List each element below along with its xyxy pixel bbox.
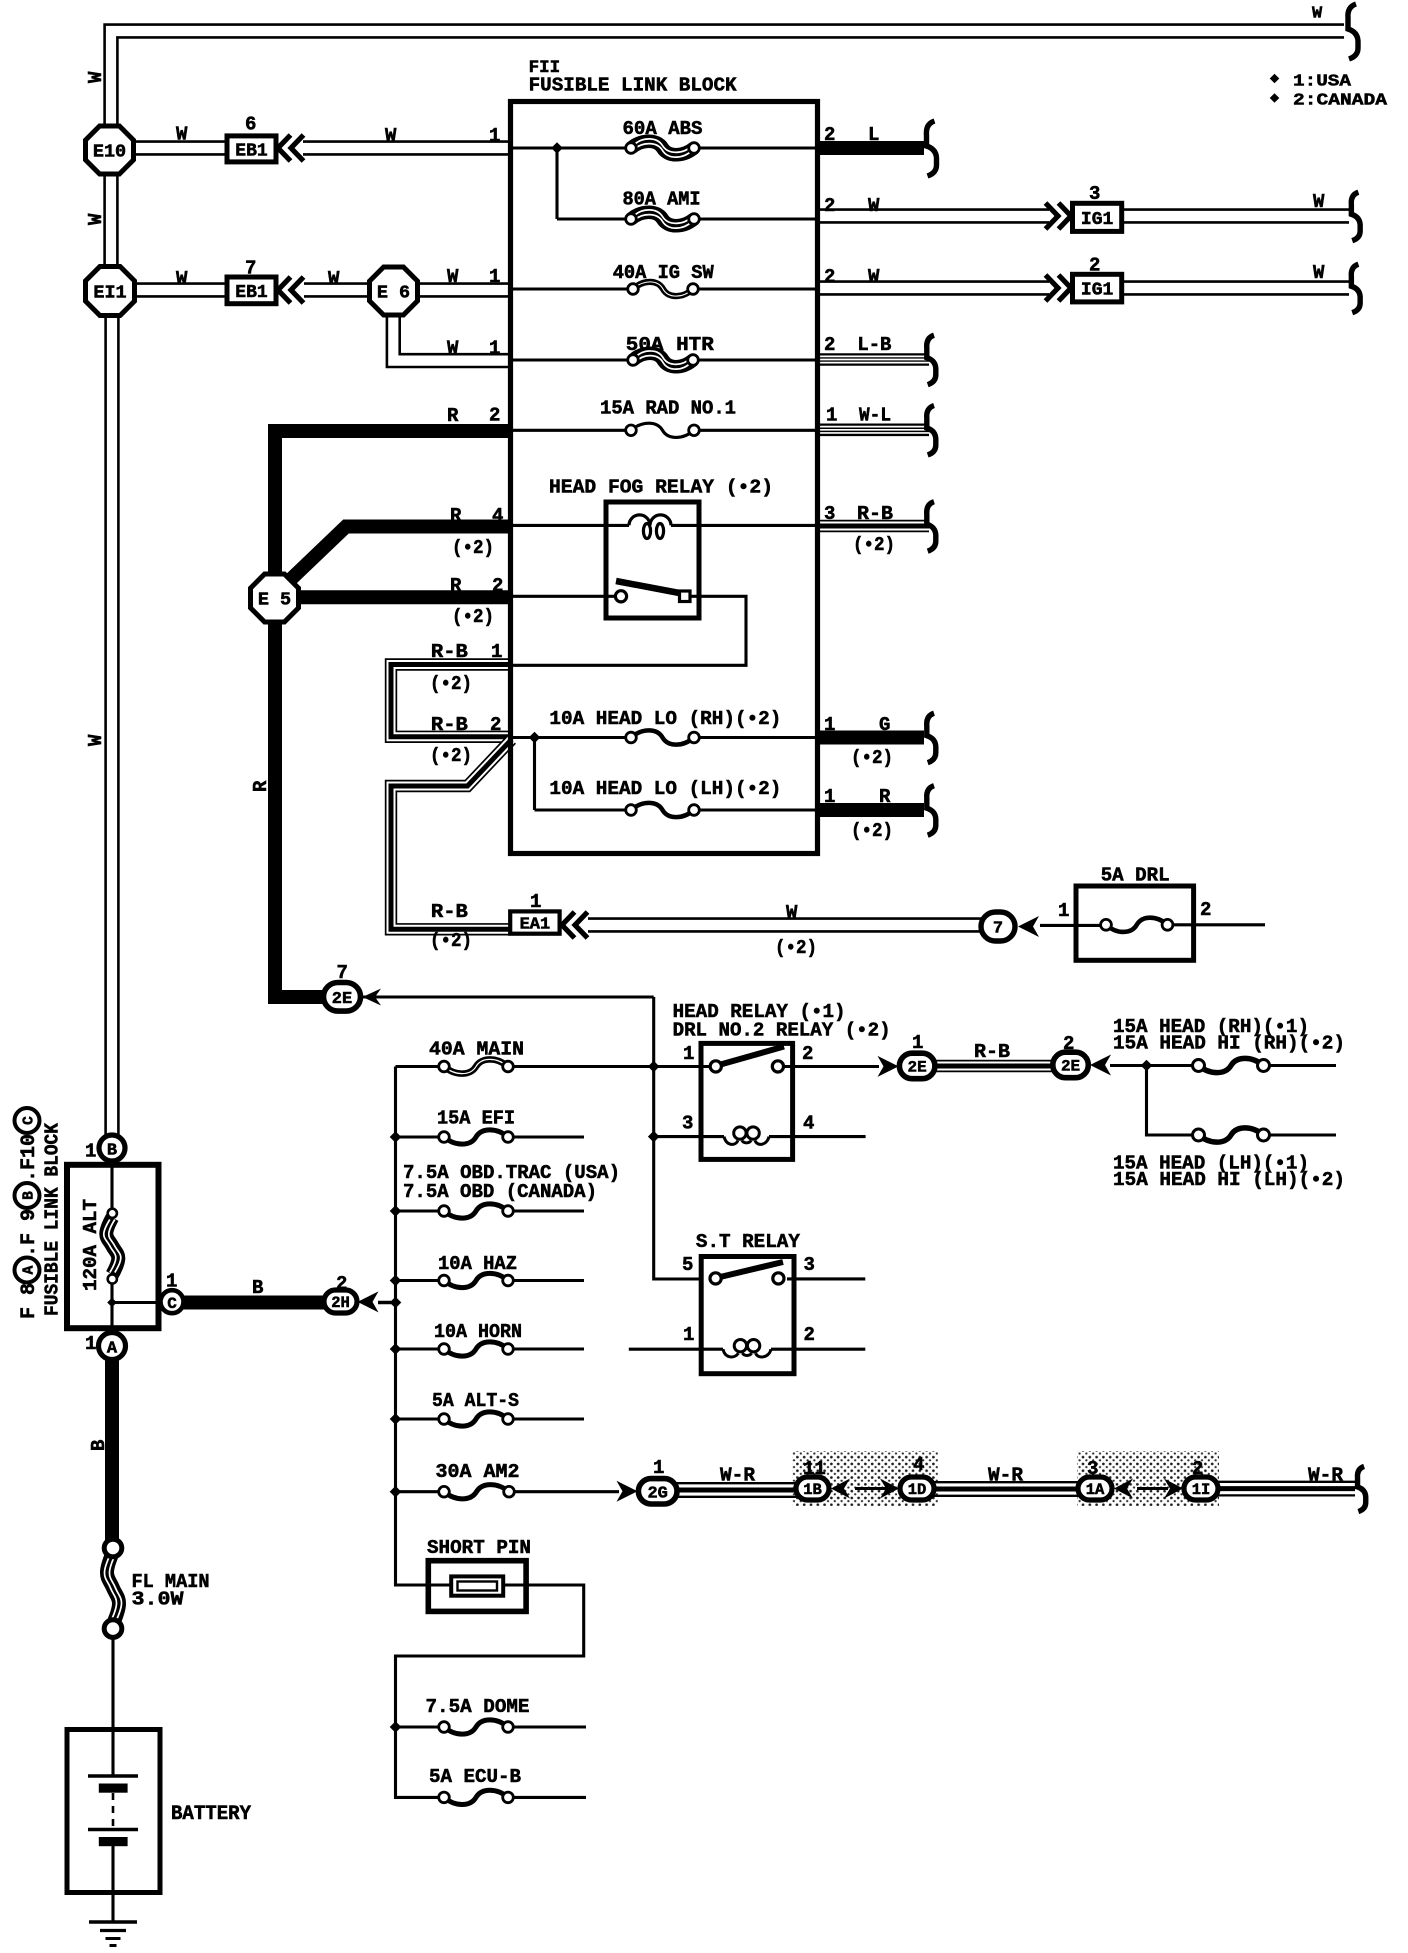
svg-text:(•2): (•2): [430, 673, 472, 695]
arrow into 2G: [617, 1481, 638, 1502]
svg-text:7: 7: [245, 258, 256, 280]
junction 15A HEAD RH/LH: [1141, 1060, 1153, 1072]
svg-text:E 5: E 5: [258, 590, 291, 611]
wire head fog relay contact row and return loop: [513, 596, 746, 665]
svg-text:5A DRL: 5A DRL: [1101, 865, 1170, 887]
svg-text:2: 2: [1192, 1458, 1203, 1480]
svg-text:W: W: [176, 124, 188, 146]
svg-text:30A AM2: 30A AM2: [436, 1461, 520, 1483]
fuse 15A HEAD (RH): [1193, 1058, 1270, 1072]
svg-text:W: W: [85, 213, 107, 225]
wire junction drop RH row to LH row: [533, 738, 536, 811]
chevrons into IG1 upper: [1046, 203, 1072, 229]
svg-text:3: 3: [804, 1254, 815, 1276]
node A terminal circle: [99, 1333, 126, 1360]
wire battery negative lead to ground: [111, 1846, 114, 1922]
svg-text:3: 3: [824, 503, 835, 525]
fuse 10A HEAD LO (RH): [626, 730, 700, 744]
fuse 10A HEAD LO (LH): [626, 803, 700, 817]
S.T relay contact: [710, 1262, 784, 1284]
fuse 7.5A DOME: [439, 1720, 514, 1734]
wire W between E10 and EI1: [103, 172, 118, 268]
wire battery positive lead: [111, 1731, 114, 1776]
svg-text:SHORT PIN: SHORT PIN: [427, 1537, 531, 1559]
wire W from E10 top along page top to right break: [111, 31, 1344, 126]
wire W from E10 to connector EB1: [133, 140, 229, 155]
svg-text:2: 2: [492, 575, 503, 597]
connector EA1: [510, 911, 559, 934]
wire 120A ALT output to node C: [112, 1301, 163, 1304]
svg-text:(•2): (•2): [430, 930, 472, 952]
junction 7.5A DOME / bus: [390, 1721, 402, 1733]
connector 1B: [796, 1477, 829, 1500]
fuse 15A HEAD (LH): [1193, 1128, 1270, 1142]
wire W from EB1 chevrons to fusible link block (60A ABS row): [303, 140, 513, 155]
svg-text:R: R: [250, 780, 272, 792]
svg-text:.F 9: .F 9: [18, 1209, 41, 1257]
svg-text:DRL NO.2 RELAY (•2): DRL NO.2 RELAY (•2): [673, 1020, 891, 1042]
arrow into 2E head relay out: [878, 1056, 899, 1077]
arrow into 2H: [358, 1291, 379, 1312]
node C terminal circle: [161, 1290, 184, 1313]
wire 50A HTR fuse to right edge: [693, 358, 817, 361]
wire 10A HORN row: [396, 1347, 585, 1350]
wire between arrows 1A-1I: [1137, 1487, 1168, 1490]
wire R-B between 2E connectors (head relay output): [934, 1060, 1054, 1072]
fuse 5A ALT-S: [439, 1412, 514, 1426]
fuse 15A RAD NO.1: [626, 423, 700, 437]
svg-text:2E: 2E: [908, 1059, 927, 1077]
wire S.T relay coil row pin1 and pin2: [629, 1348, 866, 1351]
svg-text:120A ALT: 120A ALT: [80, 1199, 102, 1291]
break curl IG1 upper W: [1351, 192, 1360, 240]
connector 1I: [1184, 1477, 1218, 1500]
chevrons at EA1: [562, 912, 588, 938]
wire R-B (*2) loop from relay contact exit back to HEAD LO fuses: [391, 665, 513, 737]
svg-text:3.0W: 3.0W: [132, 1589, 184, 1611]
svg-text:2: 2: [490, 714, 501, 736]
wire 15A RAD NO.1 fuse to right edge: [694, 429, 817, 432]
wire 80A AMI fuse to right edge: [694, 217, 817, 220]
wire W-R from 2G to 1B: [676, 1483, 797, 1497]
svg-text:1: 1: [489, 338, 500, 360]
connector IG1 (lower): [1073, 274, 1122, 302]
legend bullet 2: [1270, 93, 1280, 103]
svg-text:1D: 1D: [908, 1481, 927, 1499]
svg-text:80A AMI: 80A AMI: [623, 189, 701, 211]
svg-text:(•2): (•2): [853, 534, 895, 556]
svg-text:EB1: EB1: [235, 141, 268, 161]
wire 2H arrow to bus: [378, 1301, 396, 1304]
battery box: [67, 1730, 160, 1893]
svg-text:40A MAIN: 40A MAIN: [429, 1039, 524, 1061]
break curl top W wire: [1348, 4, 1358, 59]
wire head relay pin3 from bus: [654, 1135, 724, 1138]
connector E6: [370, 267, 418, 315]
wire W from EI1 to connector EB1 row 2: [134, 282, 229, 297]
wire 2E to 15A HEAD RH fuse: [1110, 1064, 1193, 1067]
wire R-B entry to 10A HEAD LO RH fuse: [513, 736, 631, 739]
head fog relay contact: [615, 581, 690, 602]
svg-text:2G: 2G: [647, 1484, 667, 1503]
svg-text:1I: 1I: [1192, 1481, 1211, 1499]
wire to 80A AMI fuse: [557, 217, 631, 220]
svg-text:W: W: [328, 268, 340, 290]
head relay contact: [710, 1047, 784, 1073]
svg-text:10A HEAD LO (RH)(•2): 10A HEAD LO (RH)(•2): [549, 708, 781, 730]
wire 40A IG SW fuse to right edge: [693, 287, 817, 290]
connector E10: [86, 126, 134, 174]
connector 1D: [900, 1477, 934, 1500]
wire 7.5A DOME row: [396, 1725, 587, 1728]
wire W from EI1 down to node B: [104, 314, 119, 1138]
svg-text:60A ABS: 60A ABS: [623, 118, 703, 140]
svg-text:W-R: W-R: [988, 1465, 1024, 1487]
wire W from EB1 row2 chevrons to E6: [304, 282, 371, 297]
svg-text:B: B: [107, 1142, 117, 1161]
arrow into connector 7: [1018, 916, 1039, 937]
svg-text:E 6: E 6: [377, 283, 410, 304]
break curl W-R wire: [1357, 1466, 1365, 1511]
svg-text:R-B: R-B: [431, 641, 468, 663]
svg-text:2E: 2E: [332, 990, 352, 1009]
svg-text:3: 3: [1089, 183, 1100, 205]
svg-text:F 8: F 8: [18, 1283, 41, 1319]
label 120A ALT rotated: [80, 1199, 102, 1291]
fuse 10A HORN: [439, 1342, 514, 1356]
svg-text:1: 1: [1058, 900, 1069, 922]
SHORT PIN box: [428, 1561, 526, 1612]
svg-text:2: 2: [1063, 1033, 1074, 1055]
svg-text:R-B: R-B: [431, 714, 468, 736]
connector 2E (from R trunk): [324, 983, 361, 1012]
wire inside block: left edge to 60A ABS fuse: [513, 146, 631, 149]
svg-text:1: 1: [826, 405, 837, 427]
svg-text:2: 2: [824, 266, 835, 288]
svg-text:7: 7: [993, 920, 1003, 939]
wire from 2E connector arrow to head relay bus: [362, 995, 654, 998]
svg-text:L-B: L-B: [857, 334, 891, 356]
svg-text:1: 1: [489, 125, 500, 147]
label F8A F9B F10C rotated: [15, 1108, 42, 1319]
wire vertical bus head relay / S.T relay pin 5: [654, 997, 701, 1279]
connector 2E (to head fuses): [1053, 1052, 1089, 1078]
wire W from 40A IG SW fuse to IG1 chevrons: [817, 280, 1049, 295]
svg-text:10A HAZ: 10A HAZ: [438, 1253, 517, 1275]
wire 5A DRL block to right end: [1194, 923, 1265, 926]
fusible link block FII outline: [511, 102, 818, 854]
svg-text:R: R: [879, 786, 891, 808]
svg-text:4: 4: [803, 1113, 814, 1135]
junction 2H feed / bus: [390, 1297, 402, 1309]
svg-text:R: R: [450, 505, 462, 527]
wire W from E6 to fusible link block (40A IG SW row): [417, 282, 513, 297]
wire head fog relay coil row: [513, 524, 817, 527]
junction 10A HEAD LO RH/LH: [529, 732, 541, 744]
wire W from EA1 chevrons to connector 7 (DRL feed): [588, 917, 983, 932]
connector 7 (DRL feed): [981, 912, 1015, 941]
arrow into 1D: [880, 1479, 899, 1499]
break curl G wire: [927, 713, 936, 763]
wire node B through 120A ALT link to node A: [110, 1159, 113, 1334]
svg-text:W: W: [447, 266, 459, 288]
svg-text:W-L: W-L: [859, 405, 891, 427]
fuse 60A ABS: [626, 139, 700, 157]
svg-text:2: 2: [1089, 255, 1100, 277]
svg-text:2: 2: [824, 124, 835, 146]
svg-text:R-B: R-B: [974, 1041, 1010, 1063]
svg-text:40A IG SW: 40A IG SW: [613, 262, 715, 284]
wire W from E6 bottom to fusible link block (50A HTR row): [393, 314, 513, 361]
label FUSIBLE LINK BLOCK rotated: [42, 1122, 64, 1316]
svg-text:1: 1: [912, 1032, 923, 1054]
connector EI1: [86, 267, 135, 316]
break curl L wire: [926, 121, 936, 176]
break curl L-B wire: [927, 335, 936, 385]
break curl R wire: [927, 786, 936, 836]
svg-text:15A EFI: 15A EFI: [437, 1108, 515, 1130]
fuse 5A DRL: [1101, 918, 1173, 932]
wire 5A ALT-S row: [396, 1417, 585, 1420]
svg-text:R: R: [450, 575, 462, 597]
svg-text:(•2): (•2): [851, 820, 893, 842]
svg-text:1:USA: 1:USA: [1293, 73, 1352, 92]
wire 7.5A OBD row: [396, 1209, 585, 1212]
ground symbol: [89, 1922, 137, 1946]
svg-text:4: 4: [492, 505, 503, 527]
svg-text:50A HTR: 50A HTR: [626, 334, 715, 356]
svg-text:2: 2: [804, 1324, 815, 1346]
wire R trunk: 15A RAD row to E5 and down to connector 2E: [275, 431, 513, 997]
svg-text:W: W: [786, 902, 798, 924]
svg-text:15A HEAD HI (RH)(•2): 15A HEAD HI (RH)(•2): [1113, 1033, 1345, 1055]
fuse 40A IG SW: [628, 282, 699, 296]
svg-text:BATTERY: BATTERY: [171, 1803, 251, 1826]
arrow into 1B: [831, 1479, 850, 1499]
wire FL MAIN link to battery: [111, 1637, 114, 1731]
svg-text:7.5A OBD (CANADA): 7.5A OBD (CANADA): [403, 1181, 597, 1203]
wire B from node A down to FL MAIN link: [105, 1357, 119, 1541]
svg-text:3: 3: [682, 1113, 693, 1135]
battery cells symbol: [88, 1776, 138, 1846]
fuse 80A AMI: [626, 210, 700, 228]
junction 10A HAZ / bus: [390, 1275, 402, 1287]
svg-text:IG1: IG1: [1081, 281, 1114, 301]
svg-text:W: W: [1313, 191, 1325, 213]
svg-text:7: 7: [337, 962, 348, 984]
chevrons at EB1 (row E10): [278, 135, 304, 161]
S.T relay coil: [723, 1340, 771, 1357]
stipple highlight box around connectors 1A-1I: [1077, 1451, 1219, 1506]
wire W from IG1 to right break (row 2): [1122, 280, 1349, 295]
svg-text:A: A: [22, 1265, 38, 1274]
connector 2E (head relay out): [899, 1053, 935, 1079]
svg-text:(•2): (•2): [430, 745, 472, 767]
svg-text:B: B: [252, 1277, 263, 1299]
wire R-B (*2) from HEAD LO junction down to connector EA1: [391, 740, 512, 930]
svg-text:W: W: [385, 125, 397, 147]
stipple highlight box around connectors 1B-1D: [792, 1451, 938, 1506]
label W rotated (EI1-B): [85, 734, 107, 746]
svg-text:W: W: [85, 734, 107, 746]
svg-text:6: 6: [245, 114, 256, 136]
relay HEAD FOG RELAY box: [606, 502, 699, 618]
svg-text:3: 3: [1087, 1458, 1098, 1480]
svg-text:A: A: [107, 1340, 118, 1359]
junction 7.5A OBD / bus: [390, 1205, 402, 1217]
svg-text:1: 1: [653, 1457, 664, 1479]
svg-text:15A RAD NO.1: 15A RAD NO.1: [600, 398, 736, 420]
svg-text:(•2): (•2): [775, 937, 817, 959]
connector IG1 (upper): [1073, 203, 1122, 231]
connector E5: [251, 574, 299, 622]
svg-text:2: 2: [824, 334, 835, 356]
wire 5A ECU-B row right: [508, 1796, 586, 1799]
svg-text:1: 1: [166, 1271, 177, 1293]
svg-text:2: 2: [824, 195, 835, 217]
relay S.T RELAY box: [701, 1257, 794, 1374]
head relay coil: [724, 1127, 769, 1144]
svg-text:1B: 1B: [803, 1481, 822, 1499]
wire L-B from 50A HTR fuse to break: [817, 353, 929, 366]
connector EB1 (row EI1): [227, 277, 276, 304]
head fog relay coil: [629, 515, 671, 539]
svg-text:FUSIBLE LINK BLOCK: FUSIBLE LINK BLOCK: [42, 1122, 64, 1316]
svg-text:2: 2: [336, 1273, 347, 1295]
svg-text:E10: E10: [93, 142, 126, 163]
fuse 7.5A OBD: [439, 1204, 514, 1218]
svg-text:2E: 2E: [1061, 1058, 1080, 1076]
wire 30A AM2 row: [396, 1490, 620, 1493]
svg-text:FUSIBLE LINK BLOCK: FUSIBLE LINK BLOCK: [529, 75, 737, 97]
svg-text:B: B: [88, 1440, 110, 1451]
relay HEAD RELAY / DRL NO.2 RELAY box: [701, 1043, 793, 1159]
fuse 40A MAIN: [439, 1059, 514, 1073]
wire W-L from 15A RAD NO.1 fuse to break: [817, 423, 929, 436]
wire head relay coil to pin4 exit: [769, 1135, 866, 1138]
svg-text:1: 1: [491, 641, 502, 663]
wire head relay pin1 into relay: [654, 1065, 712, 1068]
arrow into 1I: [1164, 1479, 1183, 1499]
svg-text:W: W: [1313, 262, 1325, 284]
arrow into 1A: [1114, 1479, 1133, 1499]
fuse 30A AM2: [439, 1485, 515, 1499]
wire W from 80A AMI fuse to IG1 chevrons: [817, 208, 1049, 223]
wire main fuse bus vertical: [396, 1067, 431, 1586]
wire R (*2) from E5 to head fog relay contact row: [297, 590, 513, 604]
svg-text:1: 1: [530, 891, 541, 913]
wire W-R from 1D to 1A: [933, 1482, 1079, 1496]
svg-text:5: 5: [682, 1254, 693, 1276]
connector 2H: [324, 1290, 357, 1313]
fuse 10A HAZ: [439, 1273, 514, 1287]
svg-text:W: W: [447, 338, 459, 360]
break curl W-L wire: [927, 406, 936, 456]
svg-text:EI1: EI1: [93, 283, 126, 304]
svg-text:S.T RELAY: S.T RELAY: [696, 1231, 800, 1253]
wire between arrows 1B-1D: [855, 1487, 886, 1490]
svg-text:1: 1: [85, 1141, 96, 1163]
svg-text:HEAD FOG RELAY (•2): HEAD FOG RELAY (•2): [549, 477, 773, 499]
junction 15A EFI / bus: [390, 1131, 402, 1143]
fusible link 120A ALT: [104, 1209, 121, 1284]
wire connector 7 to 5A DRL fuse block: [1040, 924, 1103, 927]
fuse 5A ECU-B: [439, 1790, 514, 1804]
wire 10A HEAD LO LH fuse to right edge: [694, 808, 817, 811]
svg-text:(•2): (•2): [452, 537, 494, 559]
svg-text:EB1: EB1: [235, 283, 268, 303]
wire W-R from 1I to right break: [1217, 1482, 1355, 1496]
wire junction drop 60A row to 80A AMI row: [555, 148, 558, 219]
svg-text:1: 1: [683, 1043, 694, 1065]
svg-text:R-B: R-B: [857, 503, 893, 525]
svg-text:C: C: [22, 1116, 38, 1125]
connector 1A: [1078, 1477, 1112, 1500]
label W rotated (E10-EI1): [85, 213, 107, 225]
svg-text:10A HEAD LO (LH)(•2): 10A HEAD LO (LH)(•2): [549, 778, 781, 800]
junction 10A HORN / bus: [390, 1343, 402, 1355]
svg-text:W: W: [868, 266, 880, 288]
wire left edge to 15A RAD NO.1 fuse: [513, 429, 631, 432]
svg-text:2: 2: [802, 1043, 813, 1065]
junction head relay pin3 / bus: [648, 1131, 660, 1143]
node B terminal circle: [99, 1135, 125, 1161]
wire R (*2) from 10A HEAD LO LH fuse to break: [817, 803, 924, 817]
svg-text:1A: 1A: [1086, 1481, 1105, 1499]
fusible link FL MAIN 3.0W: [104, 1539, 122, 1637]
svg-text:1: 1: [824, 714, 835, 736]
wire G (*2) from 10A HEAD LO RH fuse to break: [817, 731, 924, 745]
svg-text:W-R: W-R: [1308, 1465, 1344, 1487]
wire 10A HEAD LO RH fuse to right edge: [694, 736, 817, 739]
svg-text:1: 1: [85, 1333, 96, 1355]
chevrons into IG1 lower: [1046, 275, 1072, 301]
wire through SHORT PIN and return to DOME/ECU-B bus: [396, 1585, 584, 1797]
wire S.T relay pin3 exit: [787, 1277, 865, 1280]
wire 60A ABS fuse to right edge: [694, 146, 817, 149]
wire 10A HAZ row: [396, 1279, 585, 1282]
svg-text:2H: 2H: [331, 1294, 350, 1312]
svg-text:4: 4: [913, 1454, 924, 1476]
wire L from 60A ABS fuse to break: [817, 141, 924, 155]
svg-text:2:CANADA: 2:CANADA: [1293, 92, 1388, 111]
svg-text:15A HEAD HI (LH)(•2): 15A HEAD HI (LH)(•2): [1113, 1169, 1345, 1191]
label B rotated (battery wire): [88, 1440, 110, 1451]
wire inside 5A DRL block to fuse: [1171, 923, 1194, 926]
wire R-B (*2) from head fog relay coil to break: [817, 520, 929, 532]
svg-text:7.5A DOME: 7.5A DOME: [426, 1696, 530, 1718]
svg-text:.F10: .F10: [18, 1134, 41, 1182]
connector EB1 (row E10): [227, 136, 276, 162]
svg-text:W: W: [176, 268, 188, 290]
wire left edge to 50A HTR fuse: [513, 358, 633, 361]
wire 15A HEAD LH fuse to right: [1269, 1133, 1336, 1136]
connector 2G: [638, 1479, 677, 1504]
svg-text:R: R: [447, 405, 459, 427]
svg-text:G: G: [879, 714, 890, 736]
fuse 15A EFI: [439, 1130, 514, 1144]
svg-text:B: B: [22, 1191, 38, 1200]
wire drop to 15A HEAD LH fuse: [1147, 1066, 1194, 1136]
svg-text:5A ECU-B: 5A ECU-B: [429, 1766, 521, 1788]
junction 120A ALT / node C: [107, 1298, 117, 1308]
break curl IG1 lower W: [1351, 264, 1360, 312]
short pin element: [451, 1576, 503, 1595]
wire R (*2) from E5 diagonal up to head fog relay coil row: [289, 527, 513, 582]
svg-text:5A ALT-S: 5A ALT-S: [432, 1390, 519, 1412]
svg-text:IG1: IG1: [1081, 210, 1114, 230]
svg-text:10A HORN: 10A HORN: [434, 1321, 522, 1343]
